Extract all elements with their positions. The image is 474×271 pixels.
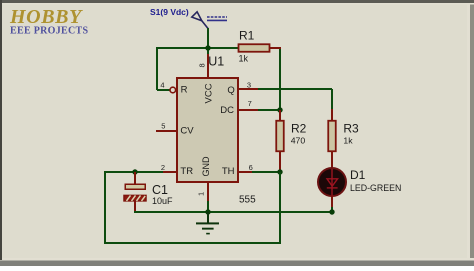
top black border bar xyxy=(0,0,474,3)
wire GND pin to rail xyxy=(207,201,209,212)
svg-text:R: R xyxy=(181,85,188,96)
wire R1 right lead down to node xyxy=(270,48,282,110)
bottom gray border bar xyxy=(0,258,474,261)
wire to reset bubble xyxy=(157,89,170,91)
pin 2 TR stub xyxy=(163,171,177,173)
wire TH pin to node xyxy=(252,171,280,173)
label R1 xyxy=(239,29,255,43)
node VCC junction dot xyxy=(205,45,210,50)
pin name TR xyxy=(180,166,193,177)
value 10uF xyxy=(152,196,173,206)
wire R3 bottom lead to LED xyxy=(331,151,333,171)
pin number 3 xyxy=(247,80,251,89)
wire LED lead to rail xyxy=(331,207,333,212)
pin 1 GND stub xyxy=(207,182,209,202)
wire ground rail xyxy=(134,211,332,213)
pin number 5 xyxy=(161,122,165,131)
pin name GND (rotated) xyxy=(201,156,211,177)
svg-text:TR: TR xyxy=(180,166,193,177)
svg-text:4: 4 xyxy=(160,80,164,89)
label U1 xyxy=(208,55,224,69)
pin name DC xyxy=(220,105,234,116)
node TH junction dot xyxy=(277,169,282,174)
node LED junction dot xyxy=(329,209,334,214)
switch S1 actuator xyxy=(192,12,208,29)
resistor R3 xyxy=(328,121,336,152)
label R2 xyxy=(291,121,307,135)
label S1(9 Vdc) xyxy=(150,7,189,17)
pin number 8 (rotated) xyxy=(198,63,207,67)
pin 7 DC stub xyxy=(238,109,258,111)
LED D1 bottom lead xyxy=(331,196,333,207)
wire TH node down and around to TR (bottom loop) xyxy=(104,172,281,244)
svg-text:1k: 1k xyxy=(239,54,249,64)
logo EEE PROJECTS xyxy=(10,26,88,37)
pin name R xyxy=(181,85,188,96)
pin number 1 (rotated) xyxy=(197,192,206,196)
svg-text:Q: Q xyxy=(227,85,234,96)
pin 3 Q stub xyxy=(238,88,258,90)
ground xyxy=(196,212,219,234)
value 1k (R3) xyxy=(343,136,353,146)
value 470 (R2) xyxy=(291,136,306,146)
wire VCC rail horizontal to R1 xyxy=(157,47,239,49)
pin number 4 xyxy=(160,80,164,89)
label 555 xyxy=(239,195,256,206)
value 1k (R1) xyxy=(239,54,249,64)
svg-text:555: 555 xyxy=(239,195,256,206)
svg-text:1k: 1k xyxy=(343,136,353,146)
svg-text:CV: CV xyxy=(180,125,194,136)
pin 5 CV stub xyxy=(156,130,177,132)
logo HOBBY xyxy=(9,6,83,28)
svg-text:7: 7 xyxy=(248,99,252,108)
svg-text:R3: R3 xyxy=(343,121,359,135)
svg-text:3: 3 xyxy=(247,80,251,89)
pin name VCC (rotated) xyxy=(204,83,215,103)
node DC junction dot xyxy=(277,107,282,112)
label LED-GREEN xyxy=(350,183,401,193)
pin 6 TH stub xyxy=(238,171,252,173)
label R3 xyxy=(343,121,359,135)
resistor R2 xyxy=(276,121,284,152)
wire switch to VCC node xyxy=(207,28,209,48)
label D1 xyxy=(350,168,366,182)
LED D1 body xyxy=(318,168,346,196)
svg-text:TH: TH xyxy=(222,166,235,177)
reset bubble pin 4 xyxy=(170,87,176,93)
op-amp U1 555 IC body xyxy=(177,78,238,182)
svg-text:470: 470 xyxy=(291,136,306,146)
right gray border bar xyxy=(467,0,470,266)
pin name TH xyxy=(222,166,235,177)
svg-text:8: 8 xyxy=(198,63,207,67)
capacitor C1 top lead xyxy=(134,172,136,184)
wire DC pin to node xyxy=(258,109,280,111)
svg-text:D1: D1 xyxy=(350,168,366,182)
capacitor C1 bottom plate (hatched) xyxy=(124,195,146,201)
left black border bar xyxy=(0,0,2,260)
svg-text:10uF: 10uF xyxy=(152,196,173,206)
svg-text:2: 2 xyxy=(161,163,165,172)
switch S1 dashed contact marks xyxy=(207,17,227,20)
pin number 7 xyxy=(248,99,252,108)
svg-text:VCC: VCC xyxy=(204,83,215,103)
wire node to R2 top xyxy=(279,110,281,121)
wire Q pin to R3 xyxy=(258,89,332,121)
node GND junction dot xyxy=(205,209,210,214)
svg-text:6: 6 xyxy=(249,163,253,172)
resistor R1 xyxy=(239,44,270,52)
pin name CV xyxy=(180,125,194,136)
svg-text:GND: GND xyxy=(201,156,211,177)
pin number 2 xyxy=(161,163,165,172)
svg-text:C1: C1 xyxy=(152,183,168,197)
svg-text:R2: R2 xyxy=(291,121,307,135)
svg-text:U1: U1 xyxy=(208,55,224,69)
svg-text:1: 1 xyxy=(197,192,206,196)
wire R2 bottom lead xyxy=(279,151,281,172)
svg-text:S1(9 Vdc): S1(9 Vdc) xyxy=(150,7,189,17)
pin 8 VCC stub xyxy=(207,48,209,78)
pin name Q xyxy=(227,85,234,96)
pin number 6 xyxy=(249,163,253,172)
node TR junction dot xyxy=(132,169,137,174)
svg-text:DC: DC xyxy=(220,105,234,116)
label C1 xyxy=(152,183,168,197)
svg-text:EEE PROJECTS: EEE PROJECTS xyxy=(10,26,88,37)
wire down to reset pin xyxy=(156,47,158,90)
svg-text:5: 5 xyxy=(161,122,165,131)
svg-text:R1: R1 xyxy=(239,29,255,43)
capacitor C1 top plate xyxy=(125,184,145,189)
capacitor C1 bottom lead xyxy=(134,201,136,212)
svg-text:LED-GREEN: LED-GREEN xyxy=(350,183,401,193)
